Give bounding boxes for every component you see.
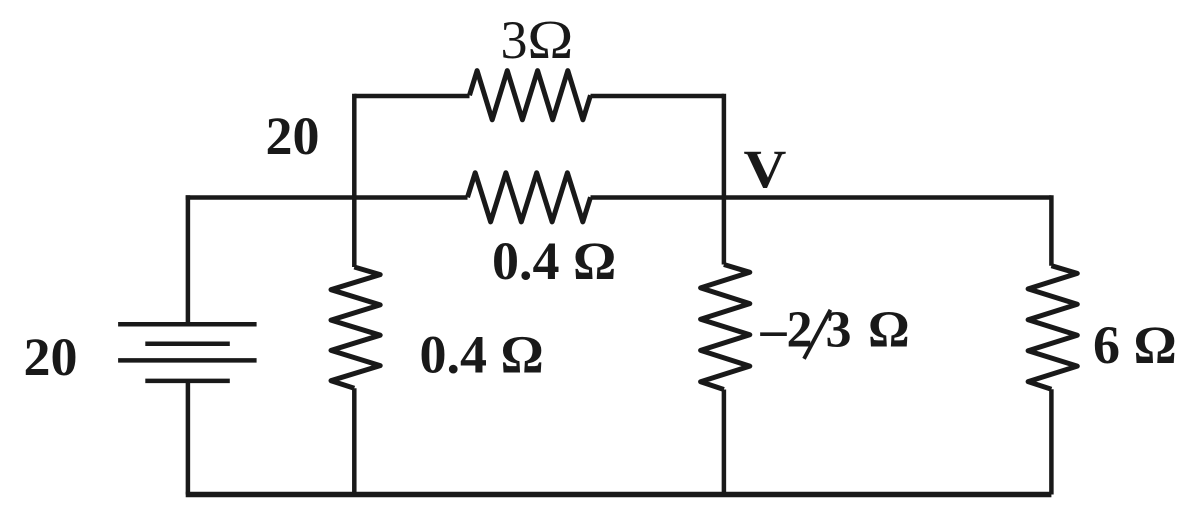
svg-text:Ω: Ω (527, 9, 573, 70)
svg-text:Ω: Ω (868, 301, 910, 358)
wire: middle rail right segment to right corner (591, 195, 1052, 200)
fraction slash of -2/3 (804, 310, 830, 359)
resistor -2/3 Ω (vertical zigzag) (701, 265, 750, 390)
wire: vertical at node 20 from top branch down to 0.4Ω resistor (352, 94, 357, 267)
svg-text:V: V (744, 139, 787, 199)
wire: top branch left segment (354, 94, 469, 99)
svg-text:0.4 Ω: 0.4 Ω (420, 325, 544, 385)
wire: right branch from middle rail down to 6Ω resistor (1049, 195, 1054, 265)
wire: below vertical 0.4Ω resistor to bottom rail (352, 388, 357, 494)
battery V1 bottom short plate (145, 379, 230, 384)
svg-text:20: 20 (266, 106, 320, 166)
wire: vertical drop from top-right corner to node V and on to -2/3 resistor (722, 94, 727, 265)
svg-text:–2: –2 (760, 301, 813, 358)
wire: below -2/3 resistor to bottom rail (722, 390, 727, 495)
wire: bottom rail (186, 492, 1052, 498)
wire: left branch from middle rail down to battery top plate (186, 195, 191, 322)
svg-text:0.4 Ω: 0.4 Ω (492, 231, 616, 291)
wire: from battery bottom plate down to bottom rail (186, 381, 191, 495)
resistor 6 Ω (vertical zigzag) (1028, 266, 1077, 390)
wire: middle rail left segment (186, 195, 468, 200)
wire: below 6Ω resistor to bottom rail (1049, 389, 1054, 494)
svg-text:20: 20 (24, 327, 78, 387)
resistor 0.4 Ω (vertical zigzag) (331, 267, 380, 388)
svg-text:3: 3 (826, 301, 852, 358)
svg-text:6 Ω: 6 Ω (1093, 315, 1177, 375)
battery V1 lower long plate (118, 358, 257, 363)
wire: top branch right segment (591, 94, 724, 99)
resistor 3Ω (top horizontal zigzag) (470, 71, 591, 120)
svg-text:3: 3 (501, 10, 528, 70)
battery V1 top long plate (118, 322, 257, 327)
battery V1 upper short plate (145, 341, 230, 346)
resistor 0.4 Ω (middle horizontal zigzag) (468, 173, 591, 222)
